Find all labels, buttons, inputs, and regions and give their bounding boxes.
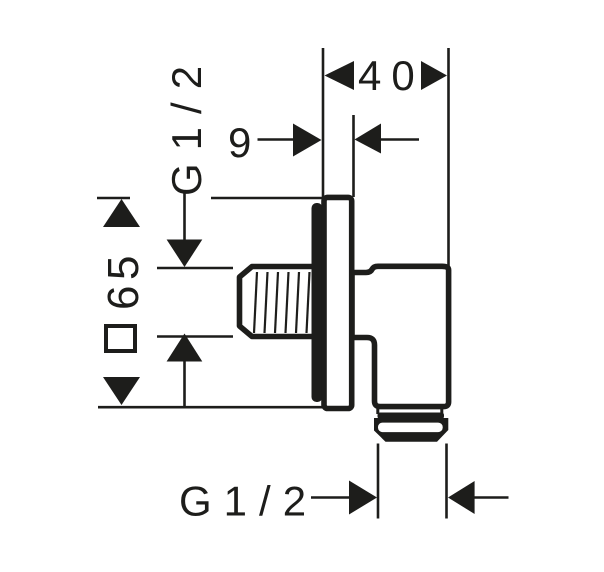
extension line outlet left [377, 444, 380, 519]
extension tick thread top [157, 267, 233, 270]
arrow 40 right [421, 61, 447, 90]
threaded pipe G1/2 [240, 267, 321, 337]
arrow 65 up [103, 199, 140, 227]
extension line of 9 dim [352, 115, 355, 197]
extension line 65 top right segment [211, 197, 323, 200]
arrow bottom pointing left [448, 481, 475, 514]
extension line outlet right [445, 444, 448, 519]
dimension line bottom right tail [474, 496, 509, 499]
square symbol [106, 326, 135, 351]
svg-text:G1/2: G1/2 [163, 53, 210, 196]
arrow 65 down [103, 377, 140, 405]
extension line right of 40 dim [447, 48, 450, 266]
extension line 65 bottom [98, 406, 330, 409]
leader line thread bottom [183, 361, 186, 406]
arrow G1/2 down to thread top [167, 240, 203, 268]
svg-text:65: 65 [99, 250, 148, 310]
outlet hose nut [374, 418, 448, 442]
outlet collar [378, 413, 445, 420]
extension line left of 40 dim [322, 48, 325, 198]
svg-text:40: 40 [358, 52, 425, 99]
dimension line 9 right tail [381, 138, 419, 141]
arrow 9 pointing left [355, 124, 382, 154]
arrow bottom pointing right [349, 481, 377, 515]
leader line G1/2 down [183, 193, 186, 242]
svg-text:G1/2: G1/2 [179, 478, 318, 525]
extension tick thread bottom [157, 335, 233, 338]
wall flange behind plate [312, 203, 323, 402]
arrow 40 left [325, 61, 355, 90]
arrow up to thread bottom [167, 334, 203, 362]
dimension line bottom left tail [311, 496, 350, 499]
nut white groove [378, 423, 443, 433]
arrow 9 pointing right [293, 124, 322, 157]
valve body [352, 266, 449, 406]
svg-text:9: 9 [228, 119, 251, 166]
outlet neck lines [376, 406, 379, 414]
escutcheon plate [324, 197, 352, 408]
extension line 65 top [97, 197, 130, 200]
thread hatch lines [254, 272, 310, 333]
dimension line 9 dash [258, 138, 294, 141]
